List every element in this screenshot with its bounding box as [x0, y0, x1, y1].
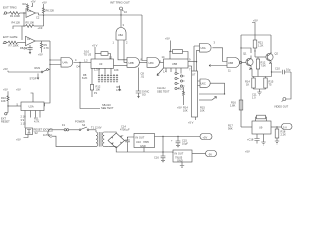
svg-text:.01: .01	[141, 75, 145, 79]
resistor R3 jumper	[95, 52, 111, 59]
svg-text:R5 10K: R5 10K	[26, 20, 35, 24]
svg-text:56K: 56K	[228, 127, 233, 131]
IC U7 tall	[192, 71, 198, 117]
svg-text:U3: U3	[99, 62, 103, 66]
ground arrow C4	[29, 52, 31, 54]
wire U8A input 1	[118, 40, 127, 60]
svg-text:U9: U9	[259, 126, 263, 130]
resistor R13	[178, 86, 185, 102]
connector J1	[3, 12, 6, 14]
svg-text:U4A: U4A	[63, 61, 68, 65]
svg-text:U8A: U8A	[118, 33, 123, 37]
svg-text:10K: 10K	[200, 109, 205, 113]
svg-text:1K: 1K	[246, 83, 249, 87]
svg-text:U6B: U6B	[228, 61, 233, 65]
pin number labels	[21, 114, 27, 125]
label R8 8.2K	[82, 73, 88, 80]
svg-text:2: 2	[126, 41, 128, 45]
wire T1 sec bottom to bridge	[108, 147, 116, 148]
wire rail top horizontal	[241, 34, 271, 36]
resistor R21	[253, 35, 263, 57]
power +5V U3	[92, 43, 98, 59]
svg-text:9: 9	[189, 57, 191, 61]
svg-text:+5V: +5V	[253, 18, 258, 22]
svg-text:+: +	[171, 139, 173, 142]
node C junction	[23, 25, 24, 26]
node B junction output	[43, 14, 44, 15]
connector J4	[120, 7, 128, 14]
capacitor C8	[136, 68, 145, 98]
wire bias from divider	[21, 26, 23, 40]
IC U3	[91, 59, 114, 68]
wire long horizontal to x142	[38, 14, 142, 16]
power +5V tick	[31, 0, 36, 7]
U5 bottom pins	[166, 68, 181, 74]
wire U6A out	[212, 48, 227, 62]
wire U8A input 2	[124, 40, 127, 62]
pin labels 9 10	[84, 49, 92, 56]
wire U5 pin7 right	[188, 66, 192, 71]
svg-text:-5V: -5V	[208, 152, 212, 156]
svg-text:10K: 10K	[114, 68, 119, 72]
wire comparator feed down	[142, 15, 147, 61]
regulator U10 7805	[134, 134, 155, 149]
svg-text:8.2K: 8.2K	[82, 76, 88, 80]
svg-text:10K: 10K	[96, 87, 101, 91]
capacitor C14	[122, 134, 130, 143]
svg-text:R2: R2	[23, 2, 27, 6]
svg-text:RESET (DOWN): RESET (DOWN)	[34, 127, 53, 131]
svg-text:VIDEO OUT: VIDEO OUT	[274, 104, 289, 108]
svg-text:1.2K: 1.2K	[258, 44, 264, 48]
node H junction	[224, 93, 225, 94]
capacitor C15	[171, 137, 188, 147]
op-amp U1-b	[26, 36, 36, 45]
node G junction	[169, 51, 170, 52]
label 4.7K right	[116, 85, 122, 92]
resistor R16	[230, 100, 243, 110]
connector J3 reset	[5, 113, 8, 116]
svg-text:3 9: 3 9	[21, 118, 25, 122]
svg-text:C4: C4	[24, 46, 28, 50]
svg-text:10µF: 10µF	[182, 142, 188, 146]
wire bridge bottom gnd	[116, 144, 163, 152]
svg-text:1: 1	[113, 41, 115, 45]
svg-text:+5V: +5V	[3, 88, 8, 92]
power +5V U7 bottom	[188, 117, 196, 125]
svg-text:P1: P1	[94, 91, 98, 95]
bus pill -5V	[206, 151, 217, 157]
node J junction	[254, 50, 255, 51]
svg-text:R6 22K: R6 22K	[46, 8, 55, 12]
svg-text:EXT TRIG: EXT TRIG	[3, 6, 17, 10]
wire run line	[8, 71, 41, 73]
nand U6-a	[200, 44, 212, 53]
wire to U11	[163, 152, 173, 153]
node P junction	[177, 136, 178, 137]
resistor R18	[275, 127, 286, 144]
wire fuse to switch	[69, 129, 79, 131]
wire video out	[286, 72, 291, 99]
svg-text:11: 11	[228, 69, 231, 73]
switch S1 blade	[41, 69, 50, 73]
nand U8-a vertical	[116, 28, 126, 41]
svg-text:SEE TEXT: SEE TEXT	[101, 106, 114, 110]
nand U6-b	[227, 58, 242, 68]
svg-text:Q2: Q2	[275, 51, 279, 55]
power +5V tick U2 top	[16, 88, 33, 102]
connector J2	[3, 41, 6, 43]
wire R1 to op-amp	[20, 12, 27, 14]
svg-text:+5V: +5V	[3, 67, 8, 71]
svg-text:SO: SO	[142, 93, 146, 97]
pushbutton S2	[26, 128, 33, 135]
wire Q1 collector	[241, 48, 251, 53]
switch S4	[75, 119, 89, 130]
svg-text:R4 12K: R4 12K	[12, 20, 21, 24]
svg-text:U8C: U8C	[149, 61, 154, 65]
switch blade arrow	[157, 68, 164, 76]
svg-text:2.2K: 2.2K	[281, 133, 287, 137]
svg-text:10: 10	[124, 10, 127, 14]
svg-text:7.5K: 7.5K	[261, 64, 267, 68]
svg-text:GND: GND	[177, 158, 183, 162]
svg-text:SB-010: SB-010	[102, 103, 111, 107]
svg-text:1.0: 1.0	[252, 96, 256, 100]
bridge rectifier D1-D4	[108, 133, 125, 148]
resistor R7	[8, 41, 18, 44]
node N junction	[162, 136, 163, 137]
resistor R15	[264, 77, 274, 89]
label CLOCK SEE TEXT	[157, 86, 170, 93]
wire U4A output	[74, 62, 92, 64]
arrow pulldown	[119, 86, 121, 91]
svg-text:RUN: RUN	[35, 66, 41, 70]
svg-text:U8B: U8B	[129, 61, 134, 65]
svg-text:EXT GATE: EXT GATE	[3, 35, 18, 39]
resistor R12b base	[256, 57, 266, 77]
transistor Q2	[266, 51, 279, 63]
svg-text:+5V: +5V	[177, 106, 182, 110]
resistor R2 pull-up	[23, 2, 29, 9]
op-amp U1-a	[26, 9, 35, 18]
capacitor C10	[272, 66, 292, 74]
svg-text:INT TRIG OUT: INT TRIG OUT	[110, 1, 130, 5]
power +5V below R9	[38, 50, 43, 57]
node K junction	[240, 47, 241, 48]
U3 bottom pins	[92, 68, 111, 84]
IC U9	[252, 121, 271, 134]
svg-text:3: 3	[123, 23, 125, 27]
wire pin to button	[24, 119, 26, 129]
resistor R12	[90, 84, 101, 97]
wire R2 to op-amp noninv	[27, 9, 29, 11]
svg-text:4: 4	[75, 58, 77, 62]
wire plug bottom to T1	[53, 136, 96, 146]
svg-text:+5V: +5V	[16, 88, 21, 92]
wire U11 out	[192, 153, 206, 155]
svg-text:+5 V: +5 V	[188, 121, 194, 125]
capacitor C16	[154, 152, 165, 162]
bus pill +5V	[200, 134, 212, 140]
ground emitter	[257, 92, 261, 95]
svg-text:U6A: U6A	[201, 46, 206, 50]
wire resistor bottoms bus	[254, 88, 266, 92]
resistor R20 top	[173, 50, 189, 59]
svg-text:POWER: POWER	[75, 119, 85, 123]
svg-text:RESET: RESET	[1, 120, 10, 124]
label C11	[252, 92, 257, 99]
wire bridge plus out	[125, 137, 135, 141]
svg-text:2 10: 2 10	[21, 114, 27, 118]
node I junction	[196, 61, 197, 62]
labels R14 10K	[183, 105, 188, 112]
svg-text:10K: 10K	[183, 109, 188, 113]
svg-text:GND: GND	[140, 144, 146, 148]
wire switch to T1	[89, 129, 96, 131]
svg-text:SEE TEXT: SEE TEXT	[157, 89, 170, 93]
svg-text:1,3,4: 1,3,4	[94, 68, 100, 72]
wire rail left vertical	[240, 35, 242, 127]
ground U10	[143, 148, 145, 153]
svg-text:4.7K: 4.7K	[44, 46, 50, 50]
svg-text:5: 5	[160, 59, 162, 63]
transistor Q1	[243, 51, 253, 69]
power +5V run	[3, 67, 8, 72]
capacitor matrix	[98, 74, 118, 83]
svg-text:Q1: Q1	[243, 51, 247, 55]
svg-text:+C3: +C3	[38, 26, 43, 30]
wire bias vertical node A	[23, 13, 25, 26]
svg-text:7: 7	[189, 67, 191, 71]
power +5V U5	[165, 37, 171, 52]
svg-text:R1 100K: R1 100K	[10, 14, 20, 18]
transformer T1	[91, 125, 108, 146]
ground U9 pin	[261, 134, 265, 145]
switch contacts column 2	[180, 75, 184, 87]
svg-text:1,4: 1,4	[163, 69, 167, 73]
ground U11	[180, 162, 184, 167]
node D junction	[7, 105, 8, 106]
svg-text:STOP: STOP	[30, 77, 37, 81]
label C14 4700	[120, 124, 130, 131]
wire U6B input2 arrow	[209, 65, 227, 67]
resistor R10	[1, 95, 9, 103]
wire Q1 emitter chain	[251, 68, 252, 77]
resistor R9	[40, 41, 49, 50]
IC U5	[164, 59, 189, 68]
connector J5 video	[282, 98, 286, 102]
svg-text:+: +	[122, 134, 124, 137]
resistor R14e	[245, 77, 255, 89]
node E junction	[120, 14, 121, 15]
svg-text:+5V: +5V	[165, 37, 170, 41]
svg-text:C10: C10	[275, 66, 280, 70]
op-amp B output wire	[35, 40, 50, 42]
wire J2 to R7	[6, 42, 8, 44]
wire U5 pin9 right	[188, 61, 197, 63]
wire feedback vertical	[43, 15, 45, 26]
gate U4-a	[61, 58, 73, 68]
resistor R5	[26, 25, 34, 28]
U2 bottom pins	[25, 111, 40, 119]
svg-text:TO U3: TO U3	[84, 52, 92, 56]
svg-text:+5V: +5V	[245, 149, 250, 153]
svg-text:C2: C2	[36, 15, 40, 19]
svg-text:3: 3	[214, 41, 216, 45]
label R11 4.7K	[34, 116, 40, 123]
wire U5 top tick	[170, 52, 173, 60]
wire U8C out	[160, 61, 164, 63]
wire U3 out	[114, 64, 128, 66]
op-amp output wire	[35, 13, 38, 15]
node A junction	[23, 12, 24, 13]
svg-text:5 V: 5 V	[283, 125, 287, 129]
label SB-010 SEE TEXT	[101, 103, 114, 110]
wire divider to feedback	[34, 25, 44, 27]
svg-text:S4: S4	[82, 123, 86, 127]
wire Q2 base	[255, 56, 266, 58]
wire emitter bus	[252, 76, 272, 78]
switch contacts column	[175, 72, 179, 89]
svg-text:+C18: +C18	[247, 137, 254, 141]
svg-text:U7: U7	[192, 72, 196, 76]
nand U6-c	[200, 79, 210, 87]
power +5V for R10	[3, 88, 8, 95]
svg-text:U6C: U6C	[201, 81, 206, 85]
svg-text:U5B: U5B	[172, 62, 177, 66]
connector AC plug	[48, 129, 53, 138]
capacitor C4	[24, 45, 33, 51]
wire R10 to reset node	[7, 102, 9, 113]
power +5V R13	[177, 102, 184, 110]
svg-text:+5V: +5V	[16, 138, 21, 142]
node O junction	[162, 151, 163, 152]
svg-text:IN OUT: IN OUT	[175, 151, 184, 155]
wire node F down	[80, 63, 100, 109]
wire stop stub arrow	[37, 74, 39, 80]
svg-text:R7 100K: R7 100K	[9, 43, 19, 47]
wire reset to U2	[8, 105, 21, 107]
wire rail from op-amp B down	[44, 41, 50, 106]
label RESET (DOWN)	[34, 127, 53, 135]
node F junction	[79, 62, 80, 63]
svg-text:IN OUT: IN OUT	[136, 135, 145, 139]
arrow out2	[212, 97, 217, 101]
svg-text:+5 V: +5 V	[92, 43, 98, 47]
wire U4A inputs	[50, 60, 61, 65]
svg-text:+5V: +5V	[38, 53, 43, 57]
power +5V button	[16, 135, 28, 142]
svg-text:T1 12.6V: T1 12.6V	[91, 125, 102, 129]
power +5V right	[42, 0, 47, 7]
svg-text:14: 14	[162, 55, 165, 59]
power +5V rail top	[252, 18, 258, 35]
label RESET	[1, 117, 10, 124]
wire J1 to R1	[7, 12, 10, 14]
wire U7 right out2	[199, 99, 212, 101]
nand U8-c	[147, 58, 159, 68]
svg-text:CH-CH: CH-CH	[157, 86, 165, 90]
wire U9 out	[271, 126, 282, 128]
resistor R19 feedback	[256, 115, 267, 121]
nand U8-b	[127, 58, 139, 68]
resistor R6	[42, 7, 44, 14]
svg-text:F1: F1	[62, 123, 66, 127]
svg-text:R13: R13	[178, 86, 183, 90]
wire Q2 emitter down	[271, 63, 273, 77]
pin labels 1 2	[113, 41, 129, 45]
wire to U6A	[194, 46, 200, 71]
svg-text:U10: U10	[136, 140, 141, 144]
resistor R1	[10, 12, 20, 15]
wire U6C inputs	[198, 81, 201, 86]
node L junction	[271, 71, 272, 72]
svg-text:10K: 10K	[1, 99, 6, 103]
svg-text:U1: U1	[28, 9, 32, 13]
wire +5 rail out	[155, 136, 201, 138]
label R17 56K	[228, 123, 233, 130]
wire rail right vertical	[270, 35, 272, 53]
svg-text:4.7K: 4.7K	[34, 120, 40, 124]
label SYNC SEE TEXT	[142, 89, 149, 96]
bus pill sync	[282, 124, 293, 130]
wire divider row	[13, 26, 26, 29]
regulator U11 79L05	[173, 150, 192, 162]
wire U6C out	[211, 83, 225, 94]
svg-text:10µ: 10µ	[286, 67, 291, 71]
wire Q1 base	[242, 62, 246, 64]
svg-text:+5V: +5V	[31, 0, 36, 4]
labels R15b 10K	[200, 105, 205, 112]
svg-text:+5V: +5V	[203, 135, 208, 139]
wire U8B out	[140, 61, 148, 63]
svg-text:S2: S2	[35, 131, 39, 135]
wire U9 left	[241, 126, 252, 128]
wire U7 right out1	[199, 93, 225, 95]
wire J4 down to gate	[120, 10, 122, 27]
wire N down	[162, 137, 164, 153]
svg-text:U2A: U2A	[29, 105, 34, 109]
svg-text:+5V: +5V	[42, 0, 47, 4]
svg-text:7805: 7805	[143, 140, 149, 144]
svg-text:1,2: 1,2	[84, 59, 88, 63]
capacitor C18	[247, 134, 260, 144]
IC U2	[21, 102, 44, 111]
svg-text:1.8K: 1.8K	[230, 104, 236, 108]
wire R7 to op-amp B	[18, 42, 26, 44]
svg-text:4700 µF: 4700 µF	[120, 128, 130, 132]
node M junction	[276, 126, 277, 127]
svg-text:C16: C16	[154, 155, 159, 159]
fuse F1	[53, 123, 69, 131]
svg-text:U1: U1	[27, 37, 31, 41]
wire T1 sec top to bridge	[108, 132, 116, 133]
